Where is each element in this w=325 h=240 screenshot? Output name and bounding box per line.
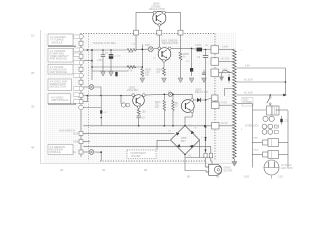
svg-text:MODULE: MODULE <box>50 150 61 154</box>
arrow on y=95 <box>283 94 287 97</box>
signal tag box T6 <box>74 87 80 90</box>
svg-text:F603: F603 <box>145 45 151 47</box>
wire E5 to connector <box>219 61 233 63</box>
ground under C602 <box>109 72 114 77</box>
svg-text:5.8V: 5.8V <box>245 65 250 68</box>
diode D603 bar <box>200 98 202 102</box>
transistor Q2 <box>158 48 171 61</box>
svg-text:REGULATOR: REGULATOR <box>162 41 178 45</box>
board edge box E7b <box>212 102 220 109</box>
wire x=101.2 down with diode <box>100 96 102 126</box>
resistor R607 vertical <box>179 48 189 65</box>
pin circle P7 <box>79 73 84 78</box>
svg-text:REGULATOR: REGULATOR <box>149 7 165 11</box>
svg-text:D602: D602 <box>196 44 202 47</box>
wire rail y=125.8 to E8 <box>83 125 211 127</box>
svg-text:R601: R601 <box>128 52 134 54</box>
motor M1 shaft dot <box>217 169 219 171</box>
AC plug PG1 <box>264 160 279 175</box>
block box B6 remote <box>48 145 73 155</box>
pin square P4 <box>79 54 83 58</box>
wire x=252 vertical lower <box>251 111 253 168</box>
ground under R606 <box>162 78 167 83</box>
svg-text:AMP MODULE: AMP MODULE <box>50 57 68 61</box>
Q1 emitter terminal circle <box>153 11 156 14</box>
bottom guide line <box>41 163 238 165</box>
wire long rail y=146.6 <box>83 141 90 143</box>
board edge box E2 <box>157 30 162 35</box>
board grid background <box>44 33 236 163</box>
wire E2 down to Q2 <box>158 35 160 47</box>
capacitor C601 <box>98 50 106 71</box>
resistor R601 horizontal <box>127 49 137 52</box>
label switch <box>242 98 253 107</box>
svg-text:AC 8.5V: AC 8.5V <box>244 79 253 82</box>
junction dot bridge top <box>184 125 186 127</box>
pin square P6 <box>79 67 83 71</box>
wire +5V right y=68 <box>236 67 285 69</box>
capacitor C605 under Q3 <box>137 115 146 126</box>
wire Q1 emitter to board edge <box>136 13 153 31</box>
plug contact rects <box>274 125 278 133</box>
svg-text:80: 80 <box>187 175 191 179</box>
current arrow up on x=205.5 <box>204 125 206 128</box>
wire dashed box to bridge <box>156 140 158 150</box>
svg-text:60: 60 <box>144 168 148 172</box>
wire E8 to connector <box>219 125 233 127</box>
pin circle P3 <box>79 47 84 52</box>
wire x=288 vertical lower <box>287 111 289 168</box>
capacitor C602 electrolytic <box>109 50 113 71</box>
wire Q5 collector right with diode <box>194 98 212 100</box>
svg-text:MOTOR: MOTOR <box>224 169 233 172</box>
wire E6 to connector <box>219 72 233 74</box>
svg-text:100: 100 <box>244 175 249 179</box>
diode D606 on connector stub <box>228 74 230 83</box>
Q2 left terminal circle <box>158 47 161 50</box>
block box B5 <box>48 94 71 104</box>
Q2 right terminal circle <box>168 47 171 50</box>
wire left branch x=92 <box>91 50 93 80</box>
transistor Q1 label <box>149 2 165 12</box>
resistor R612 above bridge <box>155 94 166 127</box>
wire E4 to connector <box>219 49 233 51</box>
wire lamp to corner <box>94 87 101 96</box>
left margin guide line <box>40 30 42 164</box>
wire x=121 down <box>120 96 122 104</box>
resistor R606 label <box>157 69 163 75</box>
svg-text:AC 21V: AC 21V <box>221 58 230 61</box>
transistor Q5 <box>181 100 194 113</box>
signal tag box T4 <box>74 61 80 64</box>
svg-text:AC: AC <box>188 155 192 158</box>
junction dot lamp wire <box>100 151 102 153</box>
capacitor C610 above bridge <box>172 94 179 127</box>
svg-text:110: 110 <box>278 175 283 179</box>
inline connector CN2b <box>209 153 212 158</box>
fusible link F603 <box>148 47 153 52</box>
wire lamp F602 right <box>94 151 101 153</box>
wire long rail y=146.6 b <box>83 146 196 148</box>
junction dot y=95.5 c <box>120 95 122 97</box>
jumper arc on connector <box>222 70 231 73</box>
svg-text:F601: F601 <box>254 138 260 140</box>
signal tag box T8 <box>74 93 80 96</box>
arrow down x=205.5 <box>204 150 206 153</box>
ground under R604 <box>140 78 145 83</box>
fuse F1 assembly <box>252 139 288 147</box>
connector circles pair <box>263 116 274 121</box>
wire bridge left input <box>157 139 170 141</box>
resistor R604 vertical <box>141 69 144 77</box>
svg-text:AMP MODULE: AMP MODULE <box>50 70 68 74</box>
board edge box E6 <box>211 69 219 76</box>
Q3 bottom terminal circle <box>137 106 140 109</box>
wire vertical x=285.5 <box>285 68 287 95</box>
svg-text:P ON: P ON <box>221 101 227 104</box>
wire branch x=143.6 <box>141 45 143 69</box>
svg-text:150: 150 <box>142 111 147 114</box>
wire Q1 collector to board edge <box>165 13 180 31</box>
wire x=180.5 to ground row <box>180 66 182 79</box>
junction dot x=205.5 y=140 <box>205 139 207 141</box>
svg-text:2SC1384: 2SC1384 <box>127 88 138 92</box>
junction dot x=191.6 <box>191 48 193 50</box>
svg-text:RELAY DR: RELAY DR <box>195 90 208 94</box>
wire Q2 emitter down <box>163 62 165 67</box>
wire E3 down to Q2 collector wire <box>180 35 182 48</box>
svg-text:SOURCE 13.8V REG: SOURCE 13.8V REG <box>93 42 116 45</box>
wire Q5 emitter down <box>185 113 192 126</box>
svg-text:20: 20 <box>60 168 64 172</box>
junction dot x=92 y=67 <box>91 66 93 68</box>
svg-text:30: 30 <box>31 105 35 109</box>
dashed board border right <box>214 34 216 162</box>
svg-text:AMP MODULE: AMP MODULE <box>51 98 69 102</box>
junction dot x=143.6 <box>142 66 144 68</box>
wire x=87.4 down to tag <box>83 96 87 102</box>
signal tag box T3 <box>74 53 80 56</box>
svg-text:13.8V: 13.8V <box>222 46 229 49</box>
svg-text:BOARD: BOARD <box>132 155 141 158</box>
wire right y=82 <box>236 81 285 83</box>
junction dot y=95.5 a <box>87 95 89 97</box>
svg-text:AUX: AUX <box>73 133 78 136</box>
wire to lamp PL1 <box>157 93 168 95</box>
junction dot x=205.5 y=49.5 <box>205 49 207 51</box>
wire pin P12 right <box>83 107 101 109</box>
svg-text:GND: GND <box>73 141 79 144</box>
wire main +B rail y=50 <box>83 49 127 51</box>
block box B4 sync <box>48 79 72 90</box>
ground under R607 <box>178 78 183 83</box>
pin circle P9 <box>79 86 84 91</box>
pin square P14 <box>79 140 83 144</box>
Q3 left terminal circle <box>132 94 135 97</box>
svg-text:120V 60Hz: 120V 60Hz <box>281 167 294 170</box>
svg-text:5%: 5% <box>186 61 189 63</box>
motor terminal stub 1 <box>206 166 209 168</box>
ground stub near jumper <box>219 74 223 81</box>
motor M1 rotor <box>214 166 221 173</box>
capacitor C607 electrolytic small <box>115 71 117 76</box>
board edge box E7a <box>212 95 219 101</box>
board edge box E5 <box>211 58 219 65</box>
transistor Q3 <box>133 95 145 107</box>
dashed board border bottom <box>100 160 205 162</box>
pin square P2 <box>79 41 83 45</box>
wire CN2b to motor <box>211 158 212 165</box>
wire bridge bottom to motor <box>185 156 209 173</box>
wire switch down <box>251 104 266 111</box>
junction dot x=92 y=50 <box>91 49 93 51</box>
connector CN1 ground <box>232 159 237 166</box>
switch S601 <box>267 94 271 106</box>
pin square P8 <box>79 80 83 84</box>
connector circles quad <box>262 124 273 134</box>
resistor R606 vertical <box>163 68 166 76</box>
ground under C603 <box>202 78 207 83</box>
junction dot x=285.5 y=82 <box>285 81 287 83</box>
wire x=205.5 long vertical <box>205 58 207 141</box>
transistor Q5 label <box>195 88 208 95</box>
board edge box E3 <box>178 30 183 35</box>
pin square P15 <box>79 150 83 154</box>
wire under bridge y=157.5 <box>185 157 213 159</box>
pin circle P12 <box>79 105 84 110</box>
pin square P13 <box>79 131 83 135</box>
wire lamp to Q5 <box>173 94 193 98</box>
relay RL1 coil box <box>267 106 280 115</box>
wire mid rail y=67 <box>92 66 142 68</box>
svg-text:B+: B+ <box>73 151 77 154</box>
wire Q3 collector right <box>145 94 157 97</box>
junction dot x=204.5 y=125.8 <box>204 125 206 127</box>
Q2 bottom terminal circle <box>163 60 166 63</box>
current arrow down on x=205.5 <box>204 137 206 140</box>
junction dot rail x=87.5 <box>87 49 89 51</box>
svg-text:4.7k: 4.7k <box>128 70 133 73</box>
junction dot x=143.6 top <box>141 49 143 51</box>
wire Q2 collector right <box>171 47 192 49</box>
board edge box E4 <box>211 46 219 53</box>
svg-text:10: 10 <box>31 34 35 38</box>
resistor R604 label <box>145 69 151 77</box>
wire stub y=88.5 <box>225 89 233 97</box>
signal tag box T2 <box>74 48 80 51</box>
svg-text:C2 100: C2 100 <box>114 56 122 58</box>
junction dot bridge bottom <box>184 154 186 156</box>
AC plug label <box>281 164 294 170</box>
signal tag box T7 <box>74 100 80 103</box>
board edge box E8 <box>212 123 220 130</box>
bridge rectifier D604 diamond <box>171 126 200 155</box>
wire Q1 base down <box>158 26 160 30</box>
block box B1 tuner <box>48 34 73 46</box>
wire x=191.6 vertical <box>191 48 193 76</box>
junction dot rail x=111 <box>110 49 112 51</box>
wire pin P5 to branch <box>83 60 92 62</box>
motor M1 body <box>209 164 222 175</box>
svg-text:MODULE: MODULE <box>52 40 63 44</box>
Q3 right terminal circle <box>142 94 145 97</box>
wire audio rail y=95.5 <box>83 94 132 96</box>
diode D603 <box>197 98 201 102</box>
wire E1 down to rail <box>135 35 137 50</box>
dashed box text <box>130 152 147 158</box>
thermistor TH601 <box>121 103 129 107</box>
ground under D601 <box>189 78 194 83</box>
junction dot x=101.2 y=117.5 <box>100 117 102 119</box>
svg-text:AC 8.5V: AC 8.5V <box>244 92 253 95</box>
svg-text:AC: AC <box>188 125 192 128</box>
capacitor C606 right <box>280 116 288 125</box>
transistor Q3 label <box>127 86 138 93</box>
svg-text:20: 20 <box>31 71 35 75</box>
wire E7 to connector <box>219 104 233 106</box>
wire junction down to dashed border <box>100 152 102 161</box>
pin square P10 <box>79 93 83 97</box>
wire CN2a to motor <box>206 158 209 167</box>
Q5 collector terminal circle <box>191 98 194 101</box>
fuse F2 assembly <box>252 151 288 159</box>
transistor Q2 label <box>161 39 178 46</box>
wire rail y=50 continuation to Q2 <box>137 48 149 50</box>
lamp F602 <box>89 150 94 155</box>
wire Q3 base down resistor R609 <box>137 108 146 114</box>
wire long rail y=133.4 <box>83 132 174 134</box>
pin circle P5 <box>79 60 84 65</box>
svg-text:40: 40 <box>102 168 106 172</box>
Q1 base terminal circle <box>158 24 161 27</box>
capacitor C604 <box>197 50 208 60</box>
transistor Q1 <box>153 11 166 24</box>
zener diode D601 <box>190 68 193 72</box>
wire ground row y=78 <box>162 77 206 79</box>
block box B2 if amp <box>48 49 73 63</box>
fuse lamp F601 <box>89 85 94 90</box>
pin square P11 <box>79 100 83 104</box>
junction dot x=205.5 y=100 <box>205 99 207 101</box>
wire regulated rail y=49.5 right <box>192 48 211 51</box>
wire from pin strip y=87 <box>83 86 89 88</box>
wire y=103.5 to switch <box>236 103 251 105</box>
dashed board border left <box>88 34 90 162</box>
board edge box E1 <box>134 30 139 35</box>
svg-text:DEFLECTION: DEFLECTION <box>50 85 67 89</box>
wire lower rail y=71 <box>92 70 128 72</box>
svg-text:AC IN: AC IN <box>221 122 228 125</box>
svg-text:F602: F602 <box>254 150 260 152</box>
connector pin strip line <box>80 34 82 158</box>
motor label <box>224 167 233 173</box>
svg-text:C601: C601 <box>98 59 104 62</box>
wire remote tag y=152 <box>83 151 89 153</box>
edge connector CN1 zigzag <box>233 49 237 159</box>
wire bridge right vertex down <box>199 140 201 158</box>
Q1 collector terminal circle <box>162 11 165 14</box>
capacitor C603 at x=204 <box>202 70 206 75</box>
wire rail to Q2 left terminal <box>153 47 158 50</box>
diode D602 block <box>197 48 203 52</box>
pin circle P1 <box>79 34 84 39</box>
resistor R603 horizontal <box>127 66 136 69</box>
dashed board border top <box>81 33 216 35</box>
wire x=205.5 to CN2a <box>205 140 207 153</box>
inline connector CN2a <box>204 153 207 158</box>
wire y=147 to motor top <box>196 147 211 154</box>
dashed component board box <box>127 150 156 159</box>
block box B3 <box>48 65 73 75</box>
svg-text:40: 40 <box>31 146 35 150</box>
signal tag box T5 <box>74 74 80 77</box>
bus line under B1 <box>48 45 76 47</box>
ground under C601 <box>101 72 106 77</box>
signal tag box T1 <box>74 35 80 38</box>
junction dot rail y=125.8 <box>138 125 140 127</box>
motor terminal stub 2 <box>206 171 209 173</box>
Q5 emitter terminal circle <box>191 110 194 113</box>
pilot lamp PL1 <box>168 90 173 97</box>
junction dot x=92 y=60.7 <box>91 60 93 62</box>
AC plug stem <box>271 176 273 179</box>
wire right y=95 <box>236 94 285 96</box>
diode D607 <box>100 110 102 113</box>
junction dot y=95.5 b <box>100 95 102 97</box>
svg-text:POWER: POWER <box>243 101 252 104</box>
svg-text:BR1: BR1 <box>181 140 186 143</box>
wire relay to right <box>276 109 289 111</box>
junction dot rail x=103 <box>102 49 104 51</box>
